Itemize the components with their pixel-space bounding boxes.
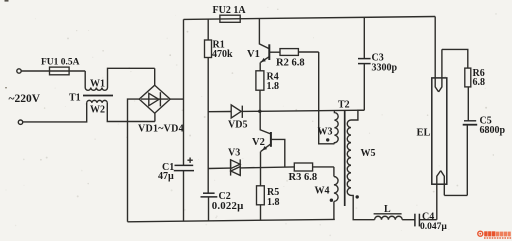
svg-text:0.022µ: 0.022µ [212, 200, 244, 212]
svg-text:VD5: VD5 [228, 120, 247, 131]
winding W1 lead right [108, 68, 155, 87]
inductor L overbar [374, 213, 402, 215]
svg-text:T2: T2 [338, 100, 350, 111]
fuse FU1 [50, 67, 70, 75]
wire top rail [184, 17, 436, 20]
svg-text:C4: C4 [422, 211, 434, 222]
svg-text:~220V: ~220V [9, 93, 41, 105]
winding W5 [347, 110, 374, 220]
resistor R4 [256, 71, 264, 112]
svg-text:0.047µ: 0.047µ [420, 222, 447, 232]
T2 core [344, 111, 346, 207]
capacitor C1 [174, 158, 194, 171]
winding W3 [334, 110, 338, 143]
terminal lower input [18, 120, 22, 124]
winding W5 polarity dot [356, 195, 359, 198]
wire DC positive rail vertical [183, 19, 185, 165]
svg-text:EL: EL [417, 128, 431, 139]
svg-text:3300p: 3300p [372, 63, 398, 74]
lamp top filament left pin [435, 17, 438, 92]
lamp bottom filament left pin [437, 171, 441, 220]
svg-text:FU2 1A: FU2 1A [213, 5, 247, 16]
winding W3 polarity dot [326, 138, 329, 141]
wire bottom rail [128, 219, 335, 221]
lamp top filament right pin [439, 49, 442, 92]
svg-text:1.8: 1.8 [267, 197, 280, 208]
wire bridge right vertex to DC rail [170, 98, 183, 100]
svg-text:T1: T1 [69, 93, 81, 104]
terminal upper input [17, 69, 21, 73]
svg-text:V2: V2 [252, 137, 265, 148]
transistor V1 [259, 19, 280, 71]
wire trigger node left [208, 167, 230, 169]
svg-text:L: L [384, 204, 391, 215]
junction midpoint [258, 110, 261, 113]
watermark sub text [484, 237, 486, 239]
wire W1 to bridge top vertex [154, 68, 156, 85]
wire C5 to lamp bottom right pin [444, 194, 467, 196]
svg-text:47µ: 47µ [158, 171, 174, 182]
inductor L [375, 216, 403, 219]
capacitor C5 [463, 121, 478, 196]
wire L to C4 [402, 219, 415, 221]
capacitor C3 [358, 17, 371, 110]
svg-text:R2 6.8: R2 6.8 [276, 58, 305, 69]
svg-text:W5: W5 [361, 148, 376, 159]
svg-text:R3 6.8: R3 6.8 [289, 172, 318, 183]
wire R2 to W3 bottom [319, 52, 335, 144]
resistor R2 [280, 49, 319, 56]
wire trigger node right [240, 167, 294, 168]
resistor R1 [205, 19, 212, 193]
watermark logo circle [478, 231, 483, 236]
winding W1 lead left [84, 71, 86, 88]
svg-text:VD1~VD4: VD1~VD4 [138, 124, 184, 135]
svg-text:6800p: 6800p [480, 125, 506, 136]
svg-text:W1: W1 [90, 79, 105, 90]
svg-text:W2: W2 [90, 105, 105, 116]
watermark main text blocks [484, 231, 511, 236]
svg-text:470k: 470k [212, 49, 233, 60]
winding W2 lead right [107, 103, 155, 122]
winding W2 [87, 100, 108, 102]
lamp EL tube [432, 78, 447, 184]
wire below C1 to bottom rail [183, 171, 185, 222]
winding W4 polarity dot [330, 199, 333, 202]
capacitor C2 [201, 193, 218, 221]
winding W2 lead left to lower terminal [23, 103, 87, 122]
T1 core [83, 95, 113, 97]
svg-text:1.8: 1.8 [267, 81, 280, 92]
capacitor C4 [415, 214, 437, 227]
svg-text:6.8: 6.8 [473, 77, 486, 88]
wire bridge left vertex riser [128, 99, 140, 222]
svg-text:V1: V1 [247, 49, 260, 60]
svg-text:W4: W4 [315, 186, 330, 197]
resistor R5 [257, 186, 265, 221]
fuse FU2 [220, 15, 240, 22]
resistor R6 [465, 68, 471, 121]
wire upper input to FU1 and through to T1 [21, 70, 85, 72]
svg-text:V3: V3 [228, 148, 240, 159]
lamp bottom filament right pin [441, 171, 445, 196]
diode VD5 [208, 105, 260, 118]
resistor R3 [294, 163, 334, 171]
bridge rectifier VD1~VD4 [139, 85, 170, 113]
transistor V2 [260, 111, 285, 186]
svg-text:FU1 0.5A: FU1 0.5A [41, 58, 80, 68]
wire mid rail [260, 110, 365, 111]
wire bridge bottom vertex stub [154, 113, 156, 121]
wire lamp top right pin to R6 [442, 49, 468, 68]
winding W1 [85, 88, 107, 91]
svg-text:W3: W3 [318, 127, 333, 138]
winding W4 [334, 167, 338, 220]
diac V3 [231, 159, 241, 175]
